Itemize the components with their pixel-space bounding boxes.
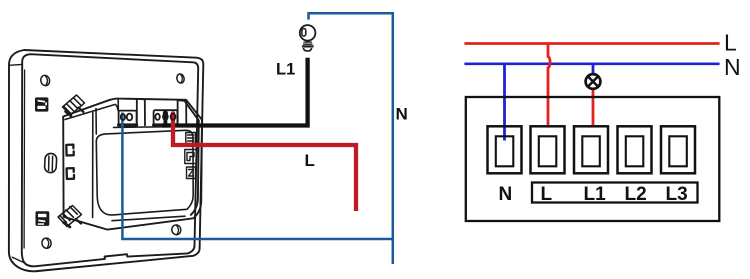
screw top-left [40, 74, 51, 86]
bracket detail 3 right side [187, 167, 196, 179]
terminal shelf: outer left post [117, 99, 119, 111]
blue N supply line [464, 62, 719, 65]
lamp bulb icon [300, 25, 316, 51]
svg-text:L1: L1 [276, 61, 295, 79]
terminal L1 [574, 126, 608, 173]
svg-text:L1: L1 [584, 184, 607, 205]
black wire: terminal to lamp [163, 112, 167, 125]
blue wire from N terminal down and around [122, 118, 392, 239]
E-clip lower on module left band [67, 168, 74, 179]
shelf front edge [114, 126, 187, 129]
plate corner seam top-left [9, 63, 22, 66]
blue drop to N terminal [503, 64, 506, 141]
slotted oval screw left [44, 153, 57, 173]
red L supply line [464, 42, 719, 45]
terminal L3 [661, 126, 695, 173]
spring clip bottom-left (hatched) [58, 206, 82, 228]
screw bottom-left [41, 237, 52, 249]
terminal block left [119, 111, 137, 125]
lamp symbol circle-X [586, 74, 601, 89]
terminal L [531, 126, 565, 173]
module top-right chamfer double line [185, 102, 198, 215]
module face second bottom line [112, 216, 185, 221]
bracket detail 1 right side [186, 133, 196, 144]
blue stub to lamp [592, 64, 595, 75]
wall plate outer rim [9, 50, 203, 271]
svg-text:N: N [724, 54, 741, 80]
plate corner seam bottom-left [12, 257, 23, 262]
svg-text:L2: L2 [625, 184, 647, 205]
label strip rectangle [532, 183, 698, 203]
terminal block right [154, 110, 178, 124]
screw top-right [176, 73, 185, 84]
clip square bottom-left [36, 211, 50, 226]
svg-text:L: L [724, 30, 737, 56]
blue wire end dot into terminal [121, 113, 124, 120]
E-clip upper on module left band [66, 145, 73, 156]
red drop to L terminal with hop [548, 44, 550, 126]
module face rounded rect [96, 130, 193, 215]
svg-text:N: N [499, 184, 513, 205]
blue wire N: top run and right vertical [309, 13, 393, 264]
bracket detail 2 right side [185, 150, 197, 164]
svg-text:L3: L3 [666, 184, 688, 205]
shelf shadow bands [119, 123, 178, 126]
module body outline [63, 99, 202, 230]
terminal hole rings over wires [121, 114, 176, 120]
svg-text:L: L [305, 151, 315, 170]
terminal L2 [618, 126, 652, 173]
svg-text:N: N [396, 105, 408, 124]
module left band inner edge [93, 109, 97, 218]
svg-text:L: L [541, 184, 553, 205]
spring clip top-left (hatched) [63, 95, 85, 116]
red lamp to L1 terminal [592, 89, 595, 126]
clip square top-left [35, 97, 48, 111]
enclosure box [466, 97, 720, 221]
terminal shelf: left post [137, 99, 145, 126]
red wire: L terminal down right [173, 113, 356, 211]
screw bottom-right [171, 224, 182, 236]
wall plate face [22, 54, 198, 266]
shelf band inner diagonal top-left [65, 104, 118, 119]
terminal N [488, 126, 522, 173]
terminal shelf: right post [178, 100, 187, 126]
plate inner left step line [23, 70, 26, 248]
